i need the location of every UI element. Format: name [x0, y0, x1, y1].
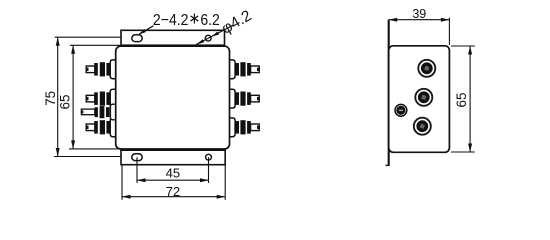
svg-text:2−4.2∗6.2: 2−4.2∗6.2	[153, 11, 220, 29]
dimension 65 line	[71, 45, 75, 149]
wire: extension line 39 right	[448, 18, 450, 45]
terminal L1 left	[86, 60, 117, 79]
svg-text:39: 39	[412, 7, 426, 21]
svg-text:65: 65	[454, 92, 469, 107]
svg-text:45: 45	[166, 166, 180, 181]
ground stud left	[81, 104, 117, 120]
dimension 72 line	[122, 195, 225, 199]
terminal R3 right	[229, 118, 260, 137]
svg-text:75: 75	[43, 91, 58, 106]
body side view	[389, 46, 450, 153]
bottom mounting slot	[132, 154, 142, 161]
wire: extension line 65 bottom	[69, 148, 120, 150]
wire: extension line 65 side top	[451, 45, 475, 47]
terminal L2 left	[86, 89, 117, 108]
top flange	[121, 30, 225, 45]
terminal circle S3	[414, 118, 431, 135]
wire: extension line 65 top	[70, 44, 121, 46]
label 2-4.2*6.2 leader	[138, 26, 154, 35]
ground circle side view	[395, 104, 407, 116]
top mounting slot	[132, 35, 142, 42]
side view flange edge line	[388, 20, 390, 166]
wire: extension line 45 right	[208, 157, 210, 183]
wire: extension line 75 bottom	[54, 156, 131, 158]
dimension 75 line	[56, 37, 60, 156]
wire: extension line 65 side bottom	[451, 151, 475, 153]
terminal circle S1	[418, 60, 435, 77]
terminal L3 left	[86, 118, 117, 137]
label diameter 4.2 leader	[196, 25, 234, 45]
svg-text:72: 72	[166, 184, 180, 199]
wire: extension line 45 left	[136, 157, 138, 183]
terminal R1 right	[229, 60, 260, 79]
bottom flange	[121, 150, 225, 165]
dimension 65 side line	[468, 46, 472, 152]
terminal circle S2	[415, 89, 432, 106]
top mounting hole	[205, 35, 211, 41]
terminal R2 right	[229, 89, 260, 108]
dimension 45 line	[137, 178, 209, 182]
wire: extension line 72 right	[224, 166, 226, 200]
wire: extension line 75 top	[55, 36, 132, 38]
body front view	[116, 46, 230, 149]
wire: extension line 72 left	[121, 166, 123, 200]
bottom mounting hole	[206, 154, 212, 160]
svg-text:65: 65	[57, 94, 72, 109]
dimension 39 line	[389, 18, 450, 22]
side view flange foot	[386, 164, 390, 166]
